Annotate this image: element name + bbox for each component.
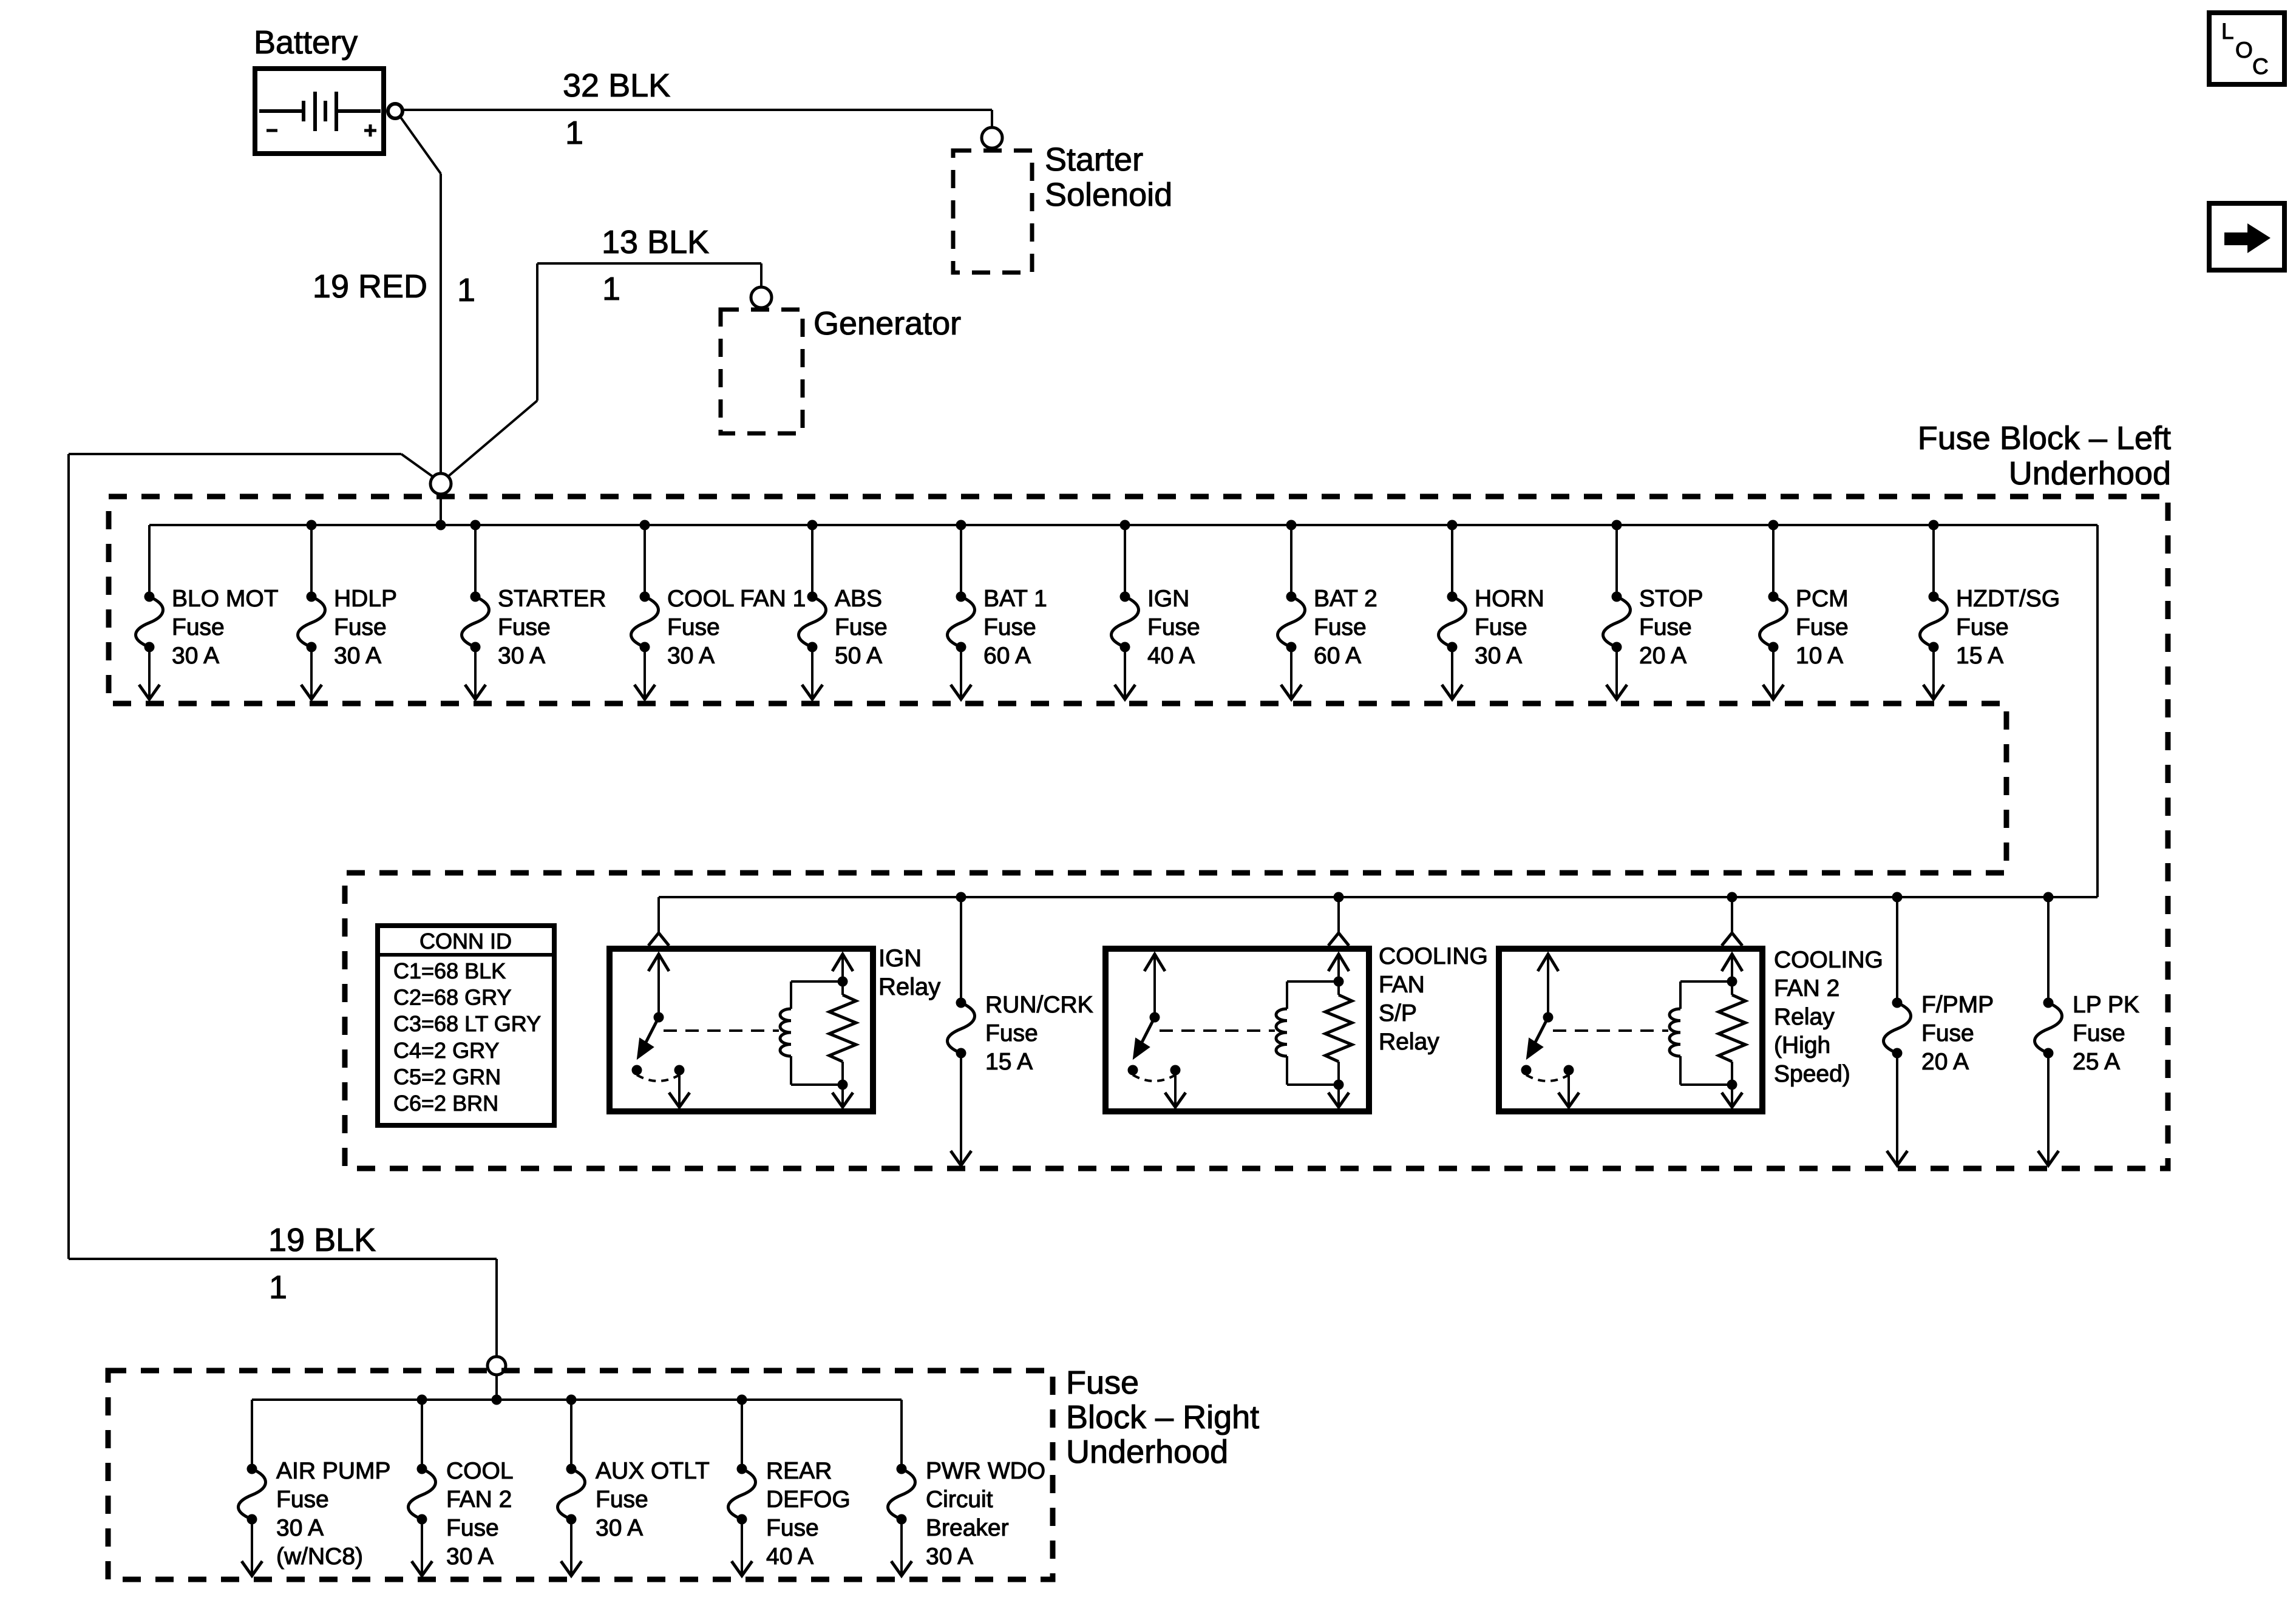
svg-text:BAT 2: BAT 2	[1314, 586, 1377, 612]
svg-text:Generator: Generator	[813, 305, 961, 342]
svg-text:Speed): Speed)	[1774, 1061, 1850, 1087]
svg-text:1: 1	[602, 271, 620, 307]
svg-text:30 A: 30 A	[1475, 643, 1522, 669]
svg-text:1: 1	[457, 272, 475, 308]
svg-text:COOL: COOL	[446, 1458, 514, 1484]
svg-text:60 A: 60 A	[1314, 643, 1361, 669]
svg-text:C3=68 LT GRY: C3=68 LT GRY	[393, 1011, 541, 1036]
svg-text:Underhood: Underhood	[1066, 1434, 1228, 1470]
svg-text:Fuse: Fuse	[172, 614, 225, 640]
svg-text:50 A: 50 A	[835, 643, 882, 669]
svg-text:C5=2 GRN: C5=2 GRN	[393, 1064, 501, 1089]
svg-text:Fuse: Fuse	[1147, 614, 1200, 640]
svg-text:Relay: Relay	[878, 974, 940, 1000]
svg-text:HZDT/SG: HZDT/SG	[1956, 586, 2060, 612]
svg-text:COOLING: COOLING	[1774, 947, 1883, 973]
svg-text:Fuse: Fuse	[276, 1486, 329, 1513]
svg-text:STOP: STOP	[1639, 586, 1703, 612]
svg-text:Relay: Relay	[1379, 1029, 1439, 1055]
svg-text:IGN: IGN	[878, 945, 922, 972]
svg-text:Fuse: Fuse	[1639, 614, 1692, 640]
svg-text:AUX OTLT: AUX OTLT	[596, 1458, 710, 1484]
svg-text:Battery: Battery	[254, 24, 358, 61]
svg-text:Fuse: Fuse	[667, 614, 720, 640]
svg-text:32 BLK: 32 BLK	[563, 67, 670, 104]
svg-text:C6=2 BRN: C6=2 BRN	[393, 1091, 498, 1116]
svg-text:Fuse: Fuse	[1921, 1020, 1974, 1046]
svg-text:20 A: 20 A	[1921, 1049, 1969, 1075]
svg-text:15 A: 15 A	[985, 1049, 1033, 1075]
svg-text:Fuse: Fuse	[1066, 1364, 1139, 1401]
svg-text:LP PK: LP PK	[2073, 992, 2139, 1018]
svg-text:Circuit: Circuit	[926, 1486, 993, 1513]
svg-text:Fuse: Fuse	[985, 1020, 1038, 1046]
svg-text:BAT 1: BAT 1	[983, 586, 1047, 612]
svg-text:F/PMP: F/PMP	[1921, 992, 1994, 1018]
svg-text:C4=2 GRY: C4=2 GRY	[393, 1038, 499, 1063]
svg-text:30 A: 30 A	[276, 1515, 324, 1541]
svg-text:30 A: 30 A	[596, 1515, 643, 1541]
svg-text:C2=68 GRY: C2=68 GRY	[393, 985, 511, 1010]
svg-text:HORN: HORN	[1475, 586, 1544, 612]
svg-text:Underhood: Underhood	[2009, 455, 2171, 492]
svg-text:Fuse: Fuse	[1314, 614, 1367, 640]
svg-text:O: O	[2235, 38, 2253, 63]
svg-text:Breaker: Breaker	[926, 1515, 1009, 1541]
svg-text:PCM: PCM	[1796, 586, 1849, 612]
svg-text:COOLING: COOLING	[1379, 943, 1488, 969]
svg-text:RUN/CRK: RUN/CRK	[985, 992, 1093, 1018]
svg-text:DEFOG: DEFOG	[766, 1486, 851, 1513]
svg-text:60 A: 60 A	[983, 643, 1031, 669]
svg-text:13 BLK: 13 BLK	[602, 224, 709, 260]
svg-text:40 A: 40 A	[766, 1544, 813, 1570]
svg-text:30 A: 30 A	[667, 643, 715, 669]
svg-text:Solenoid: Solenoid	[1045, 177, 1172, 213]
svg-text:BLO MOT: BLO MOT	[172, 586, 279, 612]
svg-text:Relay: Relay	[1774, 1004, 1835, 1030]
svg-text:Fuse: Fuse	[334, 614, 387, 640]
svg-text:Fuse: Fuse	[498, 614, 551, 640]
svg-text:1: 1	[565, 115, 583, 151]
svg-text:15 A: 15 A	[1956, 643, 2003, 669]
svg-text:Fuse: Fuse	[2073, 1020, 2125, 1046]
svg-text:Fuse: Fuse	[766, 1515, 819, 1541]
svg-text:AIR PUMP: AIR PUMP	[276, 1458, 391, 1484]
svg-text:S/P: S/P	[1379, 1000, 1417, 1026]
svg-text:10 A: 10 A	[1796, 643, 1843, 669]
svg-text:25 A: 25 A	[2073, 1049, 2120, 1075]
svg-text:(w/NC8): (w/NC8)	[276, 1544, 363, 1570]
svg-text:19 BLK: 19 BLK	[268, 1222, 376, 1258]
svg-text:1: 1	[269, 1269, 287, 1306]
svg-text:19 RED: 19 RED	[313, 268, 427, 305]
svg-text:Block – Right: Block – Right	[1066, 1399, 1259, 1436]
svg-text:COOL FAN 1: COOL FAN 1	[667, 586, 806, 612]
svg-text:Starter: Starter	[1045, 141, 1143, 178]
svg-text:IGN: IGN	[1147, 586, 1189, 612]
svg-text:L: L	[2221, 19, 2234, 44]
svg-text:20 A: 20 A	[1639, 643, 1686, 669]
svg-text:HDLP: HDLP	[334, 586, 397, 612]
svg-text:30 A: 30 A	[498, 643, 545, 669]
svg-text:Fuse: Fuse	[1796, 614, 1849, 640]
svg-text:FAN 2: FAN 2	[446, 1486, 512, 1513]
svg-text:Fuse: Fuse	[835, 614, 888, 640]
svg-text:PWR WDO: PWR WDO	[926, 1458, 1045, 1484]
svg-text:CONN ID: CONN ID	[419, 929, 512, 954]
svg-text:Fuse Block – Left: Fuse Block – Left	[1918, 420, 2171, 456]
svg-text:Fuse: Fuse	[983, 614, 1036, 640]
svg-text:STARTER: STARTER	[498, 586, 606, 612]
svg-text:FAN: FAN	[1379, 972, 1425, 998]
svg-text:40 A: 40 A	[1147, 643, 1195, 669]
svg-text:C: C	[2252, 54, 2269, 79]
svg-text:Fuse: Fuse	[1475, 614, 1527, 640]
svg-text:30 A: 30 A	[446, 1544, 494, 1570]
svg-text:C1=68 BLK: C1=68 BLK	[393, 958, 506, 983]
svg-text:Fuse: Fuse	[596, 1486, 648, 1513]
svg-text:REAR: REAR	[766, 1458, 832, 1484]
svg-text:(High: (High	[1774, 1032, 1830, 1059]
svg-text:30 A: 30 A	[334, 643, 381, 669]
svg-text:Fuse: Fuse	[1956, 614, 2009, 640]
svg-text:30 A: 30 A	[172, 643, 219, 669]
svg-text:FAN 2: FAN 2	[1774, 975, 1839, 1002]
svg-text:30 A: 30 A	[926, 1544, 973, 1570]
svg-text:Fuse: Fuse	[446, 1515, 499, 1541]
svg-text:ABS: ABS	[835, 586, 882, 612]
